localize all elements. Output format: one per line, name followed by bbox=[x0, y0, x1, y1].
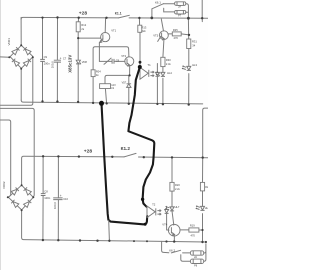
flyback diode VD7 bbox=[128, 75, 130, 103]
resistor R20 bbox=[170, 182, 174, 191]
svg-text:+: + bbox=[60, 194, 62, 198]
svg-text:HL3: HL3 bbox=[192, 63, 197, 67]
svg-text:470: 470 bbox=[191, 233, 196, 237]
wire bridge2 bottom + rail3 bbox=[22, 210, 207, 242]
wire right mid corner from edge bbox=[203, 108, 208, 157]
svg-text:+28: +28 bbox=[84, 148, 93, 154]
wire VT2 emitter down bbox=[129, 66, 131, 76]
capacitor C7 plates bbox=[54, 60, 61, 62]
wire VT4 to R19 bbox=[180, 229, 189, 231]
svg-text:470: 470 bbox=[174, 36, 179, 40]
svg-text:2А: 2А bbox=[178, 6, 181, 9]
transistor VT1 bbox=[101, 33, 110, 42]
wire VT4 emitter bbox=[173, 236, 175, 242]
switch K1.1 arm bbox=[119, 15, 130, 18]
svg-text:R21: R21 bbox=[205, 186, 208, 189]
svg-text:R12: R12 bbox=[81, 23, 86, 27]
wire rail1 top +28 bbox=[21, 17, 119, 19]
LED HL4 bbox=[161, 72, 165, 76]
svg-text:С7: С7 bbox=[63, 57, 67, 61]
svg-text:С9: С9 bbox=[44, 55, 48, 59]
svg-text:VD01: VD01 bbox=[7, 38, 11, 46]
svg-text:К1.1: К1.1 bbox=[115, 11, 122, 15]
wire rail2 +28 bbox=[22, 156, 124, 185]
switch K1.2 arm bbox=[124, 153, 136, 157]
wire rail1 bottom 0V bbox=[21, 100, 203, 104]
wire bridge1 top bbox=[20, 17, 22, 45]
svg-text:100,0: 100,0 bbox=[53, 202, 57, 209]
svg-text:К1.2: К1.2 bbox=[121, 146, 131, 151]
wire VT1 base from zener node bbox=[78, 37, 100, 39]
wire bridge1 right down to left edge bbox=[0, 57, 33, 105]
svg-text:HL4: HL4 bbox=[167, 71, 172, 75]
svg-text:Т1: Т1 bbox=[147, 63, 151, 67]
svg-text:R30: R30 bbox=[166, 58, 171, 62]
resistor R21 bbox=[200, 182, 204, 191]
T2 photodiode bbox=[167, 208, 169, 231]
junction dot wire B mid bbox=[141, 198, 144, 201]
LED HL8 bbox=[200, 206, 204, 210]
resistor R31 line (HL3 line) bbox=[187, 18, 189, 104]
resistor R12 bbox=[76, 22, 80, 32]
wire relay feed bbox=[105, 75, 130, 103]
svg-text:VD8: VD8 bbox=[82, 60, 88, 64]
wire fuses to rail bbox=[186, 4, 189, 19]
wire fuse2 left bbox=[181, 255, 191, 261]
svg-text:VТ1: VТ1 bbox=[111, 29, 116, 33]
scan edge artifact bbox=[0, 0, 1, 270]
svg-text:К6.1: К6.1 bbox=[155, 1, 161, 5]
junction dots rail1 top bbox=[7, 16, 207, 243]
wire left stub to bridge2 right bbox=[0, 108, 34, 197]
junction dot R25/R31 bbox=[188, 34, 190, 36]
fuse F2 bbox=[175, 10, 186, 14]
capacitor C9 plates bbox=[40, 59, 45, 61]
svg-text:100n: 100n bbox=[44, 62, 50, 66]
svg-text:С8: С8 bbox=[44, 190, 48, 194]
wire bridge1 bottom bbox=[20, 69, 22, 100]
svg-text:R13: R13 bbox=[142, 26, 147, 30]
resistor R21 line right bbox=[202, 158, 204, 242]
fuse F1 bbox=[175, 2, 186, 6]
relay K1 coil box bbox=[100, 84, 111, 89]
wire under A corner to rail3 bbox=[108, 221, 111, 241]
resistor R12 / zener line bbox=[77, 18, 80, 102]
junction dot zener base node bbox=[77, 37, 79, 39]
svg-text:100n: 100n bbox=[44, 196, 50, 200]
wire left stub to bridge2 left bbox=[0, 120, 11, 197]
svg-text:R20: R20 bbox=[175, 183, 180, 187]
fuse F3 bbox=[190, 251, 203, 255]
capacitor C8 series + wire to VT2 base bbox=[99, 60, 125, 62]
junction dots bridge2 bbox=[21, 184, 23, 186]
resistor R20 line bbox=[172, 157, 174, 225]
svg-text:HL8: HL8 bbox=[205, 206, 208, 210]
bridge VD01 diodes bbox=[10, 45, 21, 56]
svg-text:VD02: VD02 bbox=[2, 181, 6, 189]
fuse F4 bbox=[190, 259, 203, 263]
svg-text:+28: +28 bbox=[79, 10, 88, 16]
bridge VD02 diodes bbox=[8, 185, 21, 197]
svg-text:100,0: 100,0 bbox=[50, 61, 54, 68]
thick wire B bbox=[128, 67, 154, 207]
transistor VT4 bbox=[168, 224, 180, 236]
LED HL7 bbox=[170, 207, 174, 211]
resistor R25 bbox=[172, 32, 181, 36]
resistor R13 line bbox=[138, 18, 141, 67]
resistor R31 bbox=[187, 39, 191, 49]
capacitor C8b line bbox=[42, 156, 44, 240]
svg-text:VТ4: VТ4 bbox=[162, 222, 167, 226]
svg-text:R25: R25 bbox=[173, 28, 178, 32]
svg-text:HL7: HL7 bbox=[175, 205, 180, 209]
svg-text:VТ2: VТ2 bbox=[121, 54, 126, 58]
svg-text:R04: R04 bbox=[96, 70, 101, 74]
capacitor C8b plates bbox=[41, 194, 46, 196]
wire fuses right up to rail3 bbox=[204, 244, 206, 261]
capacitor C9 line bbox=[42, 18, 44, 102]
capacitor C10 plates bbox=[53, 198, 62, 200]
capacitor C7 line bbox=[56, 18, 58, 102]
transistor VT3 bbox=[160, 31, 169, 40]
junction dots rail3 bbox=[42, 239, 44, 241]
wire R04 collector loop bbox=[93, 47, 129, 103]
junction dots rail2 bbox=[42, 155, 44, 157]
resistor R30 bbox=[161, 57, 165, 66]
svg-text:R31: R31 bbox=[192, 40, 197, 44]
capacitor C10 line bbox=[57, 156, 59, 240]
svg-text:R19: R19 bbox=[190, 224, 195, 228]
junction dot wire B start bbox=[138, 65, 142, 69]
T1 photodiode bbox=[156, 64, 158, 104]
svg-text:+: + bbox=[60, 56, 62, 60]
transistor VT2 bbox=[125, 57, 134, 66]
svg-text:VD7: VD7 bbox=[122, 81, 127, 84]
junction dots bridge1 bbox=[20, 44, 22, 46]
junction dot T1 top bbox=[139, 61, 142, 64]
resistor R04 bbox=[91, 70, 95, 77]
big junction dot wire A start bbox=[99, 101, 104, 106]
svg-text:Т2: Т2 bbox=[152, 202, 156, 206]
wire top edge line bbox=[201, 0, 203, 22]
junction dot wire A corner bbox=[144, 223, 147, 226]
resistor R19 bbox=[189, 228, 199, 232]
junction dots rail1 bottom bbox=[41, 100, 43, 102]
LED HL3 bbox=[187, 66, 191, 70]
resistor R30 line bbox=[163, 40, 164, 105]
thick wire A bbox=[102, 103, 148, 224]
wire VT1 emitter down bbox=[98, 43, 100, 62]
svg-text:С8: С8 bbox=[116, 59, 120, 63]
wire bridge1 left stub bbox=[0, 56, 9, 58]
junction dot VT2 emitter node bbox=[129, 74, 131, 76]
zener VD8 bbox=[76, 60, 81, 64]
svg-text:VТЗ: VТЗ bbox=[153, 34, 158, 38]
svg-text:Х85с13V: Х85с13V bbox=[68, 55, 73, 73]
wire VT3 base stub bbox=[158, 36, 161, 41]
svg-text:С10: С10 bbox=[63, 197, 68, 201]
wire VT3 to R25 bbox=[168, 33, 172, 35]
resistor R13 bbox=[138, 25, 142, 32]
